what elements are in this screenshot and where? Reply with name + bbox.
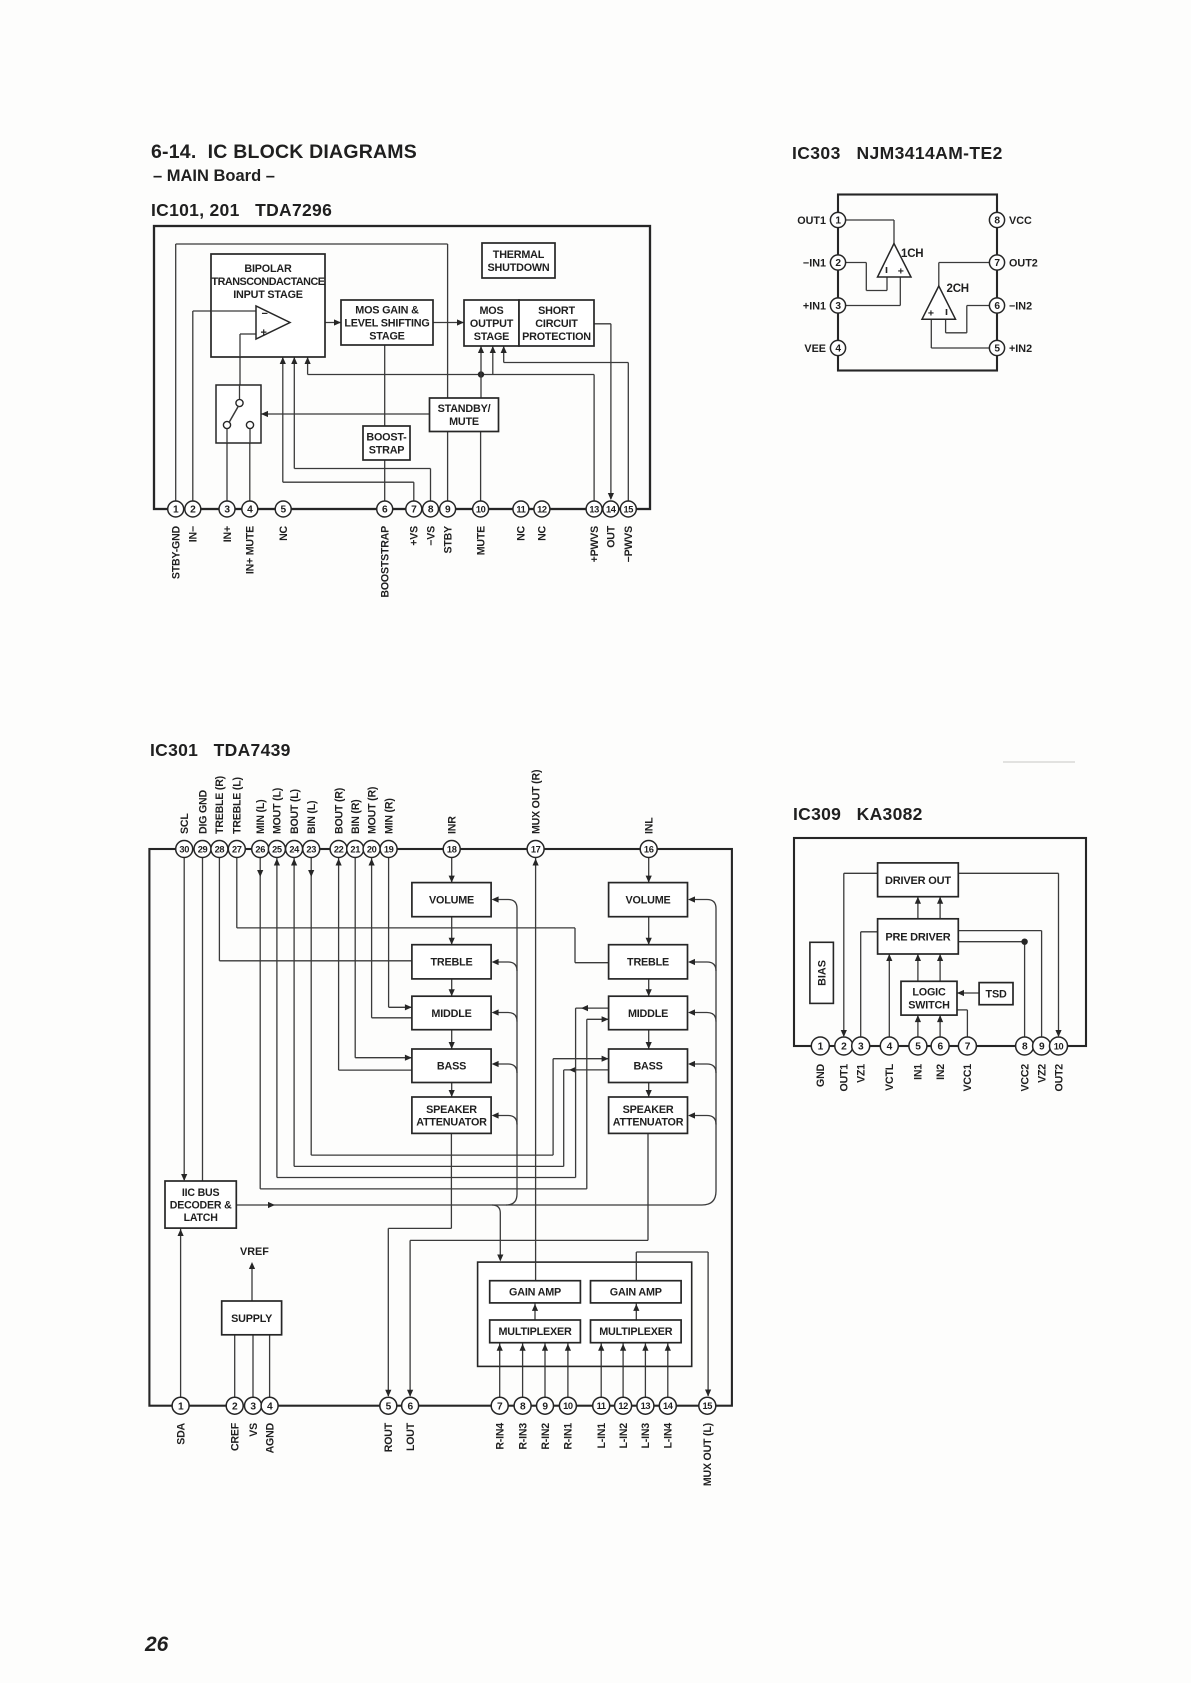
svg-text:LATCH: LATCH xyxy=(184,1212,218,1224)
svg-text:IN+: IN+ xyxy=(222,526,234,542)
svg-text:CIRCUIT: CIRCUIT xyxy=(535,318,578,330)
svg-text:1: 1 xyxy=(173,505,179,516)
svg-text:13: 13 xyxy=(641,1401,651,1411)
svg-text:SHUTDOWN: SHUTDOWN xyxy=(488,262,550,274)
svg-text:+: + xyxy=(261,327,267,339)
svg-text:NC: NC xyxy=(537,525,549,540)
svg-text:7: 7 xyxy=(965,1042,971,1053)
svg-text:26: 26 xyxy=(255,844,265,854)
svg-text:IC101, 201 TDA7296: IC101, 201 TDA7296 xyxy=(151,200,332,220)
svg-text:BIAS: BIAS xyxy=(817,960,829,986)
svg-text:INPUT STAGE: INPUT STAGE xyxy=(233,289,303,301)
svg-text:20: 20 xyxy=(367,844,377,854)
svg-text:IN−: IN− xyxy=(188,526,200,542)
svg-text:6: 6 xyxy=(994,301,1000,312)
svg-text:STRAP: STRAP xyxy=(369,444,405,456)
svg-text:STAGE: STAGE xyxy=(369,330,404,342)
svg-text:8: 8 xyxy=(520,1401,526,1412)
svg-text:−: − xyxy=(262,308,268,320)
svg-text:21: 21 xyxy=(350,844,360,854)
svg-text:STBY: STBY xyxy=(442,526,454,554)
svg-text:VZ2: VZ2 xyxy=(1036,1064,1048,1083)
svg-text:VEE: VEE xyxy=(804,343,826,355)
svg-text:5: 5 xyxy=(386,1401,392,1412)
svg-text:TREBLE: TREBLE xyxy=(627,957,669,969)
svg-text:IN2: IN2 xyxy=(935,1064,947,1080)
svg-text:MOS GAIN &: MOS GAIN & xyxy=(355,304,419,316)
svg-text:8: 8 xyxy=(1022,1042,1028,1053)
svg-text:8: 8 xyxy=(994,216,1000,227)
svg-text:ATTENUATOR: ATTENUATOR xyxy=(416,1116,487,1128)
svg-text:OUTPUT: OUTPUT xyxy=(470,318,514,330)
svg-text:1: 1 xyxy=(178,1401,184,1412)
svg-text:MUX OUT (L): MUX OUT (L) xyxy=(702,1423,714,1486)
svg-text:SPEAKER: SPEAKER xyxy=(426,1104,477,1116)
svg-text:1CH: 1CH xyxy=(901,248,923,260)
svg-text:OUT1: OUT1 xyxy=(797,215,826,227)
svg-text:7: 7 xyxy=(994,258,1000,269)
svg-text:28: 28 xyxy=(215,844,225,854)
svg-text:MUX OUT (R): MUX OUT (R) xyxy=(530,770,542,834)
svg-text:10: 10 xyxy=(476,504,486,514)
svg-text:+: + xyxy=(928,308,934,320)
svg-text:BOUT (L): BOUT (L) xyxy=(289,789,301,834)
svg-text:OUT: OUT xyxy=(606,525,618,547)
svg-text:OUT2: OUT2 xyxy=(1009,257,1038,269)
svg-text:4: 4 xyxy=(267,1401,273,1412)
svg-text:STBY-GND: STBY-GND xyxy=(171,525,183,579)
svg-text:STANDBY/: STANDBY/ xyxy=(438,403,491,415)
svg-text:VCC1: VCC1 xyxy=(962,1064,974,1092)
svg-text:2: 2 xyxy=(841,1042,847,1053)
svg-text:24: 24 xyxy=(289,844,300,854)
svg-text:22: 22 xyxy=(334,844,344,854)
svg-text:IC303 NJM3414AM-TE2: IC303 NJM3414AM-TE2 xyxy=(792,143,1003,163)
svg-text:6: 6 xyxy=(407,1401,413,1412)
svg-text:MULTIPLEXER: MULTIPLEXER xyxy=(498,1326,572,1338)
svg-text:L-IN4: L-IN4 xyxy=(663,1423,675,1449)
svg-text:VCC2: VCC2 xyxy=(1019,1064,1031,1092)
svg-text:MIN (R): MIN (R) xyxy=(383,798,395,834)
svg-text:MUTE: MUTE xyxy=(475,526,487,555)
svg-text:GND: GND xyxy=(815,1063,827,1086)
svg-text:12: 12 xyxy=(537,504,547,514)
svg-text:1: 1 xyxy=(818,1042,824,1053)
svg-text:2: 2 xyxy=(835,258,841,269)
svg-text:6: 6 xyxy=(937,1042,943,1053)
svg-text:THERMAL: THERMAL xyxy=(493,249,545,261)
svg-text:19: 19 xyxy=(384,844,394,854)
svg-text:ATTENUATOR: ATTENUATOR xyxy=(613,1116,684,1128)
svg-text:LEVEL SHIFTING: LEVEL SHIFTING xyxy=(344,317,429,329)
svg-text:9: 9 xyxy=(542,1401,548,1412)
svg-text:CREF: CREF xyxy=(230,1422,242,1451)
svg-text:BOUT (R): BOUT (R) xyxy=(333,788,345,834)
svg-text:26: 26 xyxy=(144,1633,169,1656)
svg-text:15: 15 xyxy=(624,504,634,514)
svg-text:BASS: BASS xyxy=(633,1061,662,1073)
svg-text:SHORT: SHORT xyxy=(538,305,575,317)
svg-text:10: 10 xyxy=(563,1401,573,1411)
svg-text:MOUT (R): MOUT (R) xyxy=(366,787,378,834)
svg-text:L-IN1: L-IN1 xyxy=(596,1423,608,1449)
svg-text:3: 3 xyxy=(250,1401,256,1412)
svg-text:PROTECTION: PROTECTION xyxy=(522,331,591,343)
svg-text:VOLUME: VOLUME xyxy=(626,895,671,907)
svg-text:SPEAKER: SPEAKER xyxy=(623,1104,674,1116)
svg-text:TRANSCONDACTANCE: TRANSCONDACTANCE xyxy=(212,276,325,288)
svg-text:MIDDLE: MIDDLE xyxy=(431,1008,471,1020)
svg-text:+VS: +VS xyxy=(409,526,421,546)
svg-text:15: 15 xyxy=(703,1401,713,1411)
svg-text:TREBLE: TREBLE xyxy=(431,957,473,969)
svg-text:GAIN AMP: GAIN AMP xyxy=(610,1287,662,1299)
svg-text:−VS: −VS xyxy=(425,526,437,546)
svg-text:+IN2: +IN2 xyxy=(1009,343,1032,355)
svg-text:IN1: IN1 xyxy=(913,1064,925,1080)
svg-text:12: 12 xyxy=(618,1401,628,1411)
svg-text:GAIN AMP: GAIN AMP xyxy=(509,1287,561,1299)
svg-text:MOS: MOS xyxy=(480,305,504,317)
svg-text:30: 30 xyxy=(179,844,189,854)
svg-text:DRIVER OUT: DRIVER OUT xyxy=(885,875,951,887)
svg-text:17: 17 xyxy=(531,844,541,854)
svg-text:6-14. IC BLOCK DIAGRAMS: 6-14. IC BLOCK DIAGRAMS xyxy=(151,141,417,163)
svg-text:R-IN2: R-IN2 xyxy=(540,1423,552,1450)
svg-text:STAGE: STAGE xyxy=(474,331,509,343)
svg-text:23: 23 xyxy=(306,844,316,854)
svg-text:VZ1: VZ1 xyxy=(856,1064,868,1083)
svg-text:DIG GND: DIG GND xyxy=(197,790,209,834)
svg-text:MUTE: MUTE xyxy=(449,416,479,428)
svg-text:5: 5 xyxy=(994,344,1000,355)
svg-text:3: 3 xyxy=(224,505,230,516)
svg-text:– MAIN Board –: – MAIN Board – xyxy=(153,167,275,185)
svg-text:L-IN3: L-IN3 xyxy=(640,1423,652,1449)
svg-text:MIN (L): MIN (L) xyxy=(255,800,267,835)
svg-text:IIC BUS: IIC BUS xyxy=(182,1187,220,1199)
svg-text:18: 18 xyxy=(447,844,457,854)
svg-text:BIPOLAR: BIPOLAR xyxy=(244,263,292,275)
svg-text:VCC: VCC xyxy=(1009,215,1032,227)
svg-text:1: 1 xyxy=(835,216,841,227)
svg-text:5: 5 xyxy=(915,1042,921,1053)
svg-text:IC301 TDA7439: IC301 TDA7439 xyxy=(150,740,291,760)
svg-text:8: 8 xyxy=(428,505,434,516)
svg-text:2CH: 2CH xyxy=(947,283,969,295)
svg-text:14: 14 xyxy=(606,504,617,514)
svg-text:BIN (L): BIN (L) xyxy=(306,801,318,834)
svg-text:3: 3 xyxy=(835,301,841,312)
svg-text:DECODER &: DECODER & xyxy=(170,1199,232,1211)
svg-text:11: 11 xyxy=(597,1401,606,1411)
svg-text:MULTIPLEXER: MULTIPLEXER xyxy=(599,1326,673,1338)
svg-text:INL: INL xyxy=(644,817,656,834)
svg-text:−PWVS: −PWVS xyxy=(623,526,635,563)
svg-text:INR: INR xyxy=(447,816,459,834)
svg-text:−IN1: −IN1 xyxy=(803,257,826,269)
svg-text:R-IN4: R-IN4 xyxy=(495,1423,507,1450)
svg-text:4: 4 xyxy=(887,1042,893,1053)
svg-text:R-IN3: R-IN3 xyxy=(517,1423,529,1450)
svg-text:SWITCH: SWITCH xyxy=(908,1000,950,1012)
svg-text:29: 29 xyxy=(198,844,208,854)
svg-text:LOGIC: LOGIC xyxy=(912,987,946,999)
svg-text:IN+ MUTE: IN+ MUTE xyxy=(245,526,257,574)
svg-text:NC: NC xyxy=(516,525,528,540)
svg-text:VCTL: VCTL xyxy=(884,1063,896,1091)
svg-text:25: 25 xyxy=(272,844,282,854)
svg-text:BIN (R): BIN (R) xyxy=(350,800,362,835)
svg-text:SDA: SDA xyxy=(175,1422,187,1444)
svg-text:6: 6 xyxy=(382,505,388,516)
svg-text:TREBLE (R): TREBLE (R) xyxy=(214,776,226,834)
svg-text:BOOSTSTRAP: BOOSTSTRAP xyxy=(380,526,392,598)
svg-text:L-IN2: L-IN2 xyxy=(618,1423,630,1449)
svg-text:TREBLE (L): TREBLE (L) xyxy=(232,777,244,834)
svg-text:OUT1: OUT1 xyxy=(839,1064,851,1092)
svg-text:MIDDLE: MIDDLE xyxy=(628,1008,668,1020)
svg-text:−IN2: −IN2 xyxy=(1009,300,1032,312)
svg-text:SUPPLY: SUPPLY xyxy=(231,1313,273,1325)
svg-text:7: 7 xyxy=(497,1401,503,1412)
svg-text:SCL: SCL xyxy=(179,813,191,834)
svg-text:9: 9 xyxy=(1039,1042,1045,1053)
svg-text:TSD: TSD xyxy=(986,989,1007,1001)
svg-text:9: 9 xyxy=(445,505,451,516)
svg-text:4: 4 xyxy=(835,344,841,355)
svg-text:2: 2 xyxy=(232,1401,238,1412)
svg-text:MOUT (L): MOUT (L) xyxy=(272,788,284,834)
svg-text:+: + xyxy=(898,266,904,278)
svg-text:AGND: AGND xyxy=(264,1422,276,1453)
svg-text:R-IN1: R-IN1 xyxy=(563,1423,575,1450)
svg-text:LOUT: LOUT xyxy=(405,1422,417,1451)
svg-text:7: 7 xyxy=(411,505,417,516)
svg-text:+PWVS: +PWVS xyxy=(589,526,601,563)
svg-text:2: 2 xyxy=(190,505,196,516)
svg-text:11: 11 xyxy=(516,504,525,514)
svg-text:+IN1: +IN1 xyxy=(803,300,826,312)
svg-text:BOOST-: BOOST- xyxy=(366,431,407,443)
svg-text:13: 13 xyxy=(589,504,599,514)
svg-text:PRE DRIVER: PRE DRIVER xyxy=(885,931,950,943)
svg-text:5: 5 xyxy=(281,505,287,516)
svg-text:VREF: VREF xyxy=(240,1246,269,1258)
svg-text:NC: NC xyxy=(278,525,290,540)
svg-text:IC309 KA3082: IC309 KA3082 xyxy=(793,804,923,824)
svg-text:OUT2: OUT2 xyxy=(1053,1064,1065,1092)
svg-text:14: 14 xyxy=(663,1401,674,1411)
svg-text:ROUT: ROUT xyxy=(383,1422,395,1452)
svg-text:10: 10 xyxy=(1054,1041,1064,1051)
svg-text:VS: VS xyxy=(248,1423,260,1437)
svg-text:BASS: BASS xyxy=(437,1061,466,1073)
svg-text:3: 3 xyxy=(858,1042,864,1053)
svg-text:27: 27 xyxy=(232,844,242,854)
svg-text:4: 4 xyxy=(247,505,253,516)
svg-text:VOLUME: VOLUME xyxy=(429,895,474,907)
svg-text:16: 16 xyxy=(644,844,654,854)
